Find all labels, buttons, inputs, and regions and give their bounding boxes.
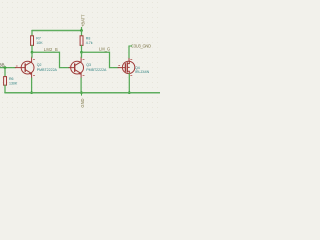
pin marks Q3 xyxy=(70,60,84,76)
wire Q3 emitter xyxy=(80,78,82,93)
wire drain label stub xyxy=(129,45,132,47)
wire Q4 source xyxy=(128,74,130,93)
wire left base entry xyxy=(0,67,15,69)
svg-text:R7: R7 xyxy=(36,36,41,40)
pin marks Q4 xyxy=(119,60,132,76)
svg-text:10K: 10K xyxy=(36,41,43,45)
junction Q3 emitter/rail xyxy=(80,91,83,94)
svg-text:130K: 130K xyxy=(9,82,18,86)
wire LM2_B net xyxy=(32,52,69,67)
wire power feed down xyxy=(81,28,83,31)
junction R7 / LM2_B xyxy=(31,51,34,54)
svg-text:3B: 3B xyxy=(0,62,5,67)
resistor R6 xyxy=(4,77,7,86)
wire Q4 drain pin xyxy=(128,59,130,62)
wire LM_G net xyxy=(82,52,119,67)
svg-text:IRLZ44N: IRLZ44N xyxy=(135,70,150,74)
grid dots xyxy=(2,2,158,118)
junction Q2 emitter/rail xyxy=(30,91,33,94)
resistor R7 xyxy=(31,36,34,46)
transistor Q3 xyxy=(69,57,84,78)
wire rail to R7 top xyxy=(31,31,33,36)
wire R8 bottom xyxy=(81,45,83,52)
wire R6 bottom xyxy=(4,85,6,93)
wire drain vertical xyxy=(128,46,130,59)
pin marks Q2 xyxy=(16,60,35,76)
resistor R8 xyxy=(80,36,83,46)
wire R6 top xyxy=(4,68,6,77)
svg-text:PMBT2222A: PMBT2222A xyxy=(37,68,58,72)
ground symbol GND xyxy=(81,93,83,96)
svg-text:4.7k: 4.7k xyxy=(86,41,93,45)
wire Q3 collector xyxy=(81,52,83,57)
wire Q2 collector xyxy=(31,52,33,57)
svg-text:+BATT: +BATT xyxy=(80,14,85,27)
wire ground rail xyxy=(5,92,160,94)
svg-text:GND: GND xyxy=(80,98,85,107)
wire Q2 emitter xyxy=(31,78,33,93)
transistor Q2 xyxy=(15,57,34,78)
svg-text:Q3: Q3 xyxy=(86,63,91,67)
svg-text:PMBT2222A: PMBT2222A xyxy=(86,68,107,72)
junction R8 / LM_G xyxy=(80,51,83,54)
svg-text:Q2: Q2 xyxy=(37,63,42,67)
svg-text:R8: R8 xyxy=(86,36,91,40)
svg-text:R6: R6 xyxy=(9,77,14,81)
junction Q4 source/rail xyxy=(128,91,131,94)
wire rail to R8 top xyxy=(81,31,83,36)
wire R6 corner xyxy=(4,92,6,94)
svg-text:C3U3_GND: C3U3_GND xyxy=(131,43,151,48)
svg-text:LM_G: LM_G xyxy=(99,46,110,51)
junction base/R6 xyxy=(4,66,7,69)
wire top rail xyxy=(32,30,82,32)
transistor Q4 mosfet xyxy=(118,61,135,74)
wire R7 bottom xyxy=(31,45,33,52)
junction power/rail xyxy=(80,29,83,32)
svg-text:LM2_B: LM2_B xyxy=(44,47,58,52)
